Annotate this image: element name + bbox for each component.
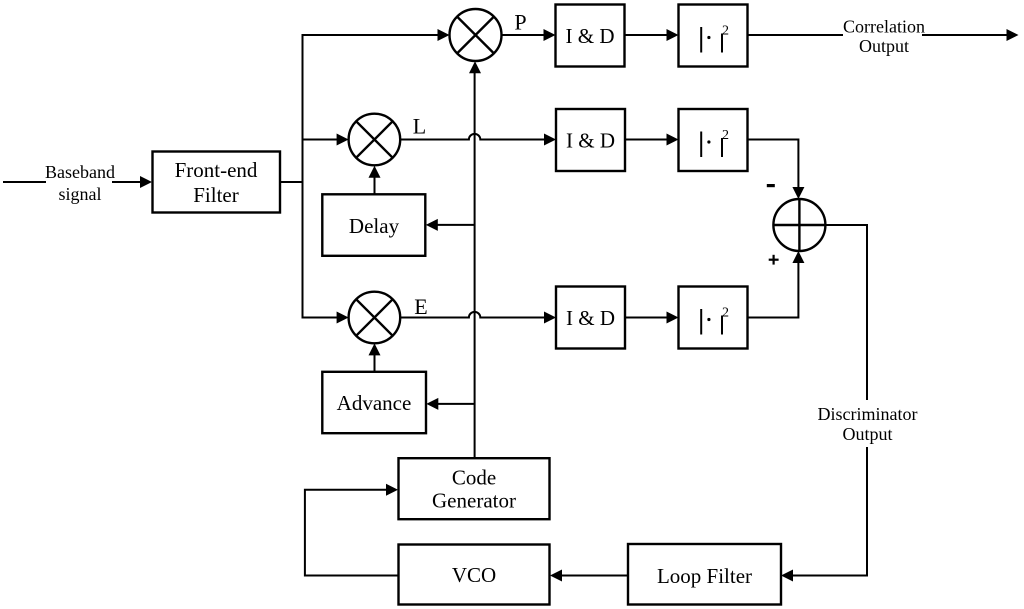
label: minus sign <box>767 184 775 187</box>
node label: Baseband signal <box>45 162 115 204</box>
wire: early squarer to summer plus input <box>748 251 805 318</box>
wire: baseband input stub <box>3 181 46 183</box>
block: Delay <box>322 194 425 256</box>
wire: code line branch into Advance <box>426 398 474 410</box>
svg-text:I & D: I & D <box>566 306 615 330</box>
svg-text:Discriminator: Discriminator <box>818 404 918 424</box>
block: I & D (late) <box>556 109 625 171</box>
wire: late squarer to summer minus input <box>748 140 805 200</box>
wire: E to I&D with hop over code line <box>400 312 556 324</box>
block: Advance <box>322 372 426 433</box>
svg-text:I & D: I & D <box>566 24 615 48</box>
wire: trunk to P multiplier <box>302 29 450 41</box>
svg-text:Baseband: Baseband <box>45 162 115 182</box>
block: I & D (prompt) <box>556 5 625 67</box>
wire: trunk to E multiplier <box>302 312 349 324</box>
block: I & D (early) <box>556 287 625 349</box>
svg-text:Code: Code <box>452 466 496 490</box>
wire: Delay to L multiplier <box>369 166 381 194</box>
block: squarer |.|^2 (prompt) <box>679 5 748 67</box>
wire: P to I&D <box>502 29 556 41</box>
wire: VCO feedback to Code Generator <box>305 484 399 576</box>
svg-text:VCO: VCO <box>452 563 496 587</box>
block: Loop Filter <box>628 544 781 605</box>
node label: Correlation Output <box>843 17 925 57</box>
wire: arrow into Front-end Filter <box>112 176 152 188</box>
svg-text:Correlation: Correlation <box>843 17 925 37</box>
block: Front-end Filter <box>153 152 281 213</box>
block: squarer |.|^2 (early) <box>679 287 748 349</box>
svg-text:Loop Filter: Loop Filter <box>657 564 752 588</box>
node label: Discriminator Output <box>818 404 918 444</box>
wire: I&D to squarer (prompt) <box>625 29 679 41</box>
multiplier E (mixer) <box>349 292 401 344</box>
block: Code Generator <box>399 458 550 519</box>
label: plus sign <box>769 255 779 265</box>
wire: Loop Filter to VCO <box>550 570 628 582</box>
multiplier P (mixer) <box>450 9 502 61</box>
svg-text:Output: Output <box>859 36 909 56</box>
svg-text:Generator: Generator <box>432 489 516 513</box>
multiplier L (mixer) <box>349 114 401 166</box>
svg-text:2: 2 <box>722 128 729 143</box>
wire: squarer to correlation output label <box>748 34 844 36</box>
wire: correlation output arrow <box>922 29 1019 41</box>
svg-text:P: P <box>514 10 526 35</box>
wire: code line branch into Delay <box>426 219 475 231</box>
svg-text:E: E <box>414 294 427 319</box>
svg-text:2: 2 <box>722 306 729 321</box>
wire: Advance to E multiplier <box>369 343 381 371</box>
wire: discriminator output down to Loop Filter <box>781 447 867 582</box>
svg-text:Filter: Filter <box>193 183 239 207</box>
block: VCO <box>399 545 550 605</box>
svg-text:Output: Output <box>842 424 892 444</box>
wire: trunk to L multiplier <box>302 134 349 146</box>
wire: I&D to squarer (early) <box>625 312 679 324</box>
svg-text:Front-end: Front-end <box>175 158 258 182</box>
svg-text:I & D: I & D <box>566 129 615 153</box>
wire: I&D to squarer (late) <box>625 134 679 146</box>
svg-text:Advance: Advance <box>337 391 412 415</box>
svg-text:signal: signal <box>59 184 102 204</box>
svg-text:Delay: Delay <box>349 214 400 238</box>
wire: trunk vertical <box>302 34 304 319</box>
svg-text:L: L <box>413 114 426 139</box>
wire: summer output to discriminator line <box>825 225 867 400</box>
wire: code generator line up to P multiplier <box>469 61 481 458</box>
svg-text:2: 2 <box>722 24 729 39</box>
summer (adder) <box>773 199 825 251</box>
wire: filter output to trunk <box>280 181 304 183</box>
block: squarer |.|^2 (late) <box>679 109 748 171</box>
wire: L to I&D with hop over code line <box>400 134 556 146</box>
